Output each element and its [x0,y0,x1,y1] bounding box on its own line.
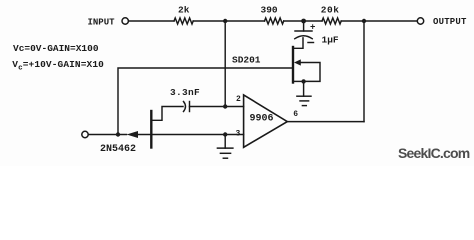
ground stub at node D [224,135,226,149]
node D junction [223,132,227,136]
svg-text:SeekIC.com: SeekIC.com [398,145,470,161]
svg-text:20k: 20k [321,4,340,15]
capacitor C1 bottom plate [295,36,312,39]
Q1 source lead [293,80,304,82]
wire input to R1 [129,20,174,22]
svg-text:2: 2 [236,95,241,104]
Q2 drain step to C2 [152,107,183,121]
wire node E to op-amp pin 2 [225,106,243,108]
Q2 gate arrow [127,131,139,138]
wire arrow to Q2 and on to node D [138,134,225,136]
resistor 390 [265,18,284,24]
svg-text:2N5462: 2N5462 [100,144,136,155]
resistor 2k [174,18,193,24]
wire terminal to Q2 [88,134,126,136]
control terminal [82,131,88,137]
svg-text:6: 6 [293,110,298,119]
svg-text:SD201: SD201 [232,55,261,66]
feedback vertical wire [363,21,365,122]
svg-text:3.3nF: 3.3nF [170,87,200,98]
capacitor C1 top plate [295,30,312,32]
svg-text:Vc=+10V-GAIN=X10: Vc=+10V-GAIN=X10 [12,59,104,73]
capacitor C1 1uF stem [303,21,305,31]
wire C2 to node E [190,106,226,108]
node C [362,19,366,23]
Q1 body arrow [294,59,301,65]
OUTPUT terminal [417,18,423,24]
transistor Q1 SD201 channel bar [292,47,294,83]
wire node D to op-amp pin 3 [225,134,243,136]
svg-text:9906: 9906 [250,114,274,125]
svg-text:INPUT: INPUT [88,18,116,28]
INPUT terminal [122,18,128,24]
op-amp U1 triangle [244,95,288,147]
svg-text:OUTPUT: OUTPUT [433,17,467,27]
gate wire junction [116,132,120,136]
Q1 body lead loop [301,63,321,82]
resistor 20k [322,18,341,24]
wire R1 to node A [193,20,264,22]
svg-text:1µF: 1µF [322,34,339,45]
ground G1 [297,95,311,97]
Q1 gate wire [118,68,292,135]
svg-text:Vc=0V-GAIN=X100: Vc=0V-GAIN=X100 [13,43,99,54]
svg-text:+: + [310,22,315,32]
wire cap to Q1 drain [293,38,303,49]
transistor Q2 2N5462 channel bar [150,111,152,148]
ground G2 [217,147,233,149]
node B [301,19,306,24]
svg-text:2k: 2k [178,5,190,16]
node E junction [223,104,227,108]
capacitor C2 right plate [189,102,191,112]
node A vertical wire [224,21,226,107]
svg-text:390: 390 [261,5,278,16]
node A [223,19,227,23]
Q1 source junction [301,79,305,83]
wire 390 to node B [284,20,322,22]
svg-text:3: 3 [236,130,241,139]
minus sign [308,42,314,44]
op-amp output wire [287,121,364,123]
capacitor C2 3.3nF left plate [184,102,186,112]
wire 20k to output [341,20,417,22]
Q1 source ground stem [303,81,305,96]
